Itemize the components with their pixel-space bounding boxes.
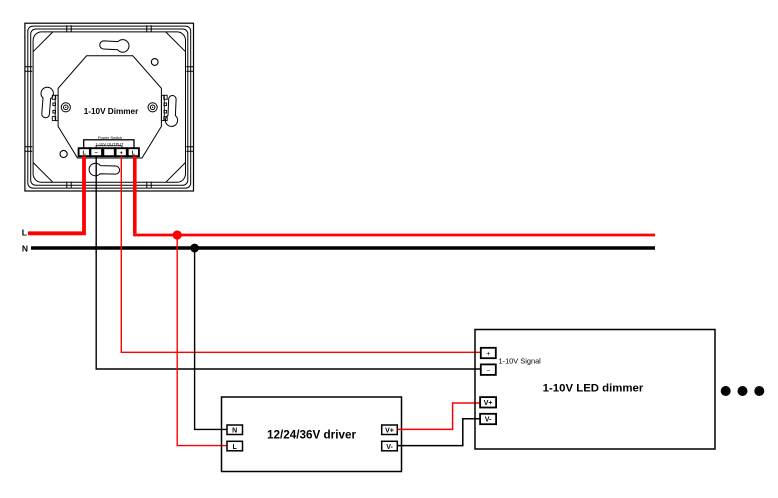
svg-text:Power Switch: Power Switch bbox=[98, 135, 122, 140]
svg-text:12/24/36V driver: 12/24/36V driver bbox=[267, 429, 356, 442]
screw hole right bbox=[148, 103, 157, 112]
screw hole left bbox=[61, 103, 70, 112]
wall dimmer panel outer frame bbox=[25, 23, 194, 191]
dimmer terminal minus bbox=[481, 364, 496, 375]
wire switched live from terminal L2 (red) bbox=[133, 156, 655, 235]
svg-text:V+: V+ bbox=[484, 400, 493, 407]
svg-text:+: + bbox=[486, 351, 490, 358]
svg-text:L: L bbox=[22, 227, 27, 237]
dimmer terminal V- bbox=[480, 414, 496, 424]
mounting plate octagon bbox=[33, 32, 185, 182]
svg-text:1-10V OUTPUT: 1-10V OUTPUT bbox=[95, 141, 124, 146]
driver terminal L bbox=[227, 441, 243, 451]
driver box bbox=[222, 397, 402, 472]
svg-text:V-: V- bbox=[386, 444, 393, 451]
terminal blank bbox=[103, 148, 115, 156]
wire V- driver to dimmer (black) bbox=[397, 419, 480, 446]
driver terminal N bbox=[227, 425, 243, 435]
inner octagon face bbox=[58, 56, 161, 158]
svg-text:V-: V- bbox=[485, 417, 492, 424]
LED dimmer box bbox=[475, 330, 715, 450]
driver terminal V- bbox=[382, 441, 398, 451]
wire V+ driver to dimmer (red) bbox=[397, 403, 480, 429]
terminal block housing bbox=[84, 140, 134, 148]
wire signal plus (red thin) bbox=[121, 156, 481, 352]
wire N mains (black) bbox=[31, 246, 655, 250]
terminal minus bbox=[90, 148, 102, 156]
wire signal minus (black thin) bbox=[96, 156, 481, 369]
right keyhole slot bbox=[165, 95, 177, 126]
left keyhole slot bbox=[41, 87, 53, 118]
svg-text:−: − bbox=[486, 367, 490, 374]
left clip bracket bbox=[52, 95, 58, 120]
right clip bracket bbox=[161, 95, 167, 120]
junction dot red bbox=[173, 230, 182, 239]
ellipsis dots more dimmers bbox=[721, 386, 765, 396]
small circle top-right bbox=[151, 59, 158, 66]
terminal L2 bbox=[128, 148, 139, 156]
driver terminal V+ bbox=[382, 425, 398, 435]
terminal L1 bbox=[79, 148, 90, 156]
bottom keyhole slot bbox=[89, 163, 119, 176]
junction dot black bbox=[190, 244, 199, 253]
top keyhole slot bbox=[100, 40, 129, 53]
svg-text:1-10V Dimmer: 1-10V Dimmer bbox=[84, 107, 139, 116]
svg-text:+: + bbox=[120, 150, 123, 156]
svg-text:V+: V+ bbox=[385, 428, 394, 435]
svg-text:1-10V Signal: 1-10V Signal bbox=[499, 357, 542, 366]
svg-text:−: − bbox=[95, 150, 98, 156]
svg-text:L: L bbox=[233, 444, 238, 451]
wire L mains (red) from terminal L1 bbox=[28, 156, 84, 233]
dimmer terminal V+ bbox=[480, 397, 496, 407]
frame notches bbox=[25, 25, 193, 188]
wire driver N (black thin) bbox=[195, 248, 227, 429]
wire driver L (red thin) bbox=[177, 235, 227, 446]
svg-text:1-10V LED dimmer: 1-10V LED dimmer bbox=[543, 383, 644, 395]
dimmer terminal plus bbox=[481, 348, 496, 358]
svg-text:N: N bbox=[22, 243, 28, 253]
svg-text:N: N bbox=[232, 428, 237, 435]
terminal plus bbox=[116, 148, 127, 156]
small circle bottom-left bbox=[60, 150, 67, 157]
